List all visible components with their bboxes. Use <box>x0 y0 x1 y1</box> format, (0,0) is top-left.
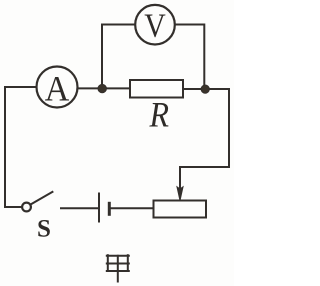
wire ammeter left down left side to switch <box>5 87 37 207</box>
voltmeter V1 circle <box>135 5 175 45</box>
rheostat R2 box <box>154 201 207 218</box>
switch S pivot circle <box>22 203 31 212</box>
battery long positive plate <box>98 193 100 223</box>
svg-text:A: A <box>45 68 70 108</box>
wire battery to switch gap <box>61 207 98 209</box>
ammeter A1 circle <box>37 67 78 108</box>
svg-text:S: S <box>37 216 51 243</box>
node B junction dot <box>201 85 209 93</box>
resistor R box <box>130 80 183 98</box>
wire ammeter right to resistor <box>78 87 131 89</box>
wire voltmeter left to node A <box>102 25 136 86</box>
wire voltmeter right to node B <box>175 25 205 87</box>
wire battery right to rheostat <box>110 207 153 209</box>
wire right side down-left-down to rheostat arrow <box>180 89 229 188</box>
node A junction dot <box>98 84 107 93</box>
wire resistor to node B and onward right <box>183 88 229 90</box>
switch S blade <box>30 191 53 204</box>
rheostat slider arrow <box>176 186 184 200</box>
svg-text:R: R <box>149 94 169 134</box>
battery short negative plate <box>108 202 111 216</box>
svg-text:V: V <box>144 7 166 44</box>
caption 甲 drawn strokes <box>107 255 129 281</box>
